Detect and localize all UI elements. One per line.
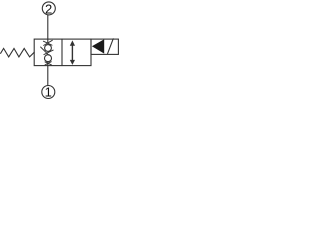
port 1 line — [47, 66, 49, 86]
port 2 circle — [42, 2, 55, 15]
arrowhead up (flow arrow) — [70, 40, 75, 45]
solenoid triangle (filled, pointing left) — [92, 39, 104, 53]
port 2 line — [47, 15, 49, 39]
poppet ball circle 2 — [45, 55, 52, 62]
flow arrow shaft (right square) — [71, 44, 73, 62]
poppet ball circle 1 — [45, 45, 52, 52]
port 2 stub into left square — [47, 39, 49, 43]
solenoid box — [91, 39, 118, 54]
seat X2 (middle) — [41, 47, 49, 55]
spring (left, zigzag) — [1, 48, 35, 57]
port 1 stub inside left square — [47, 62, 49, 66]
svg-text:2: 2 — [45, 1, 52, 16]
port 1 circle — [42, 86, 55, 99]
seat X1 (top) — [43, 41, 52, 45]
port label 1 — [45, 85, 52, 100]
svg-text:1: 1 — [45, 85, 52, 100]
solenoid slash — [108, 39, 114, 54]
background — [0, 0, 121, 100]
arrowhead down (flow arrow) — [70, 60, 75, 65]
seat X3 (bottom) — [45, 62, 52, 65]
port label 2 — [45, 1, 52, 16]
valve body envelope (two squares) — [34, 39, 91, 66]
position divider — [61, 39, 63, 66]
